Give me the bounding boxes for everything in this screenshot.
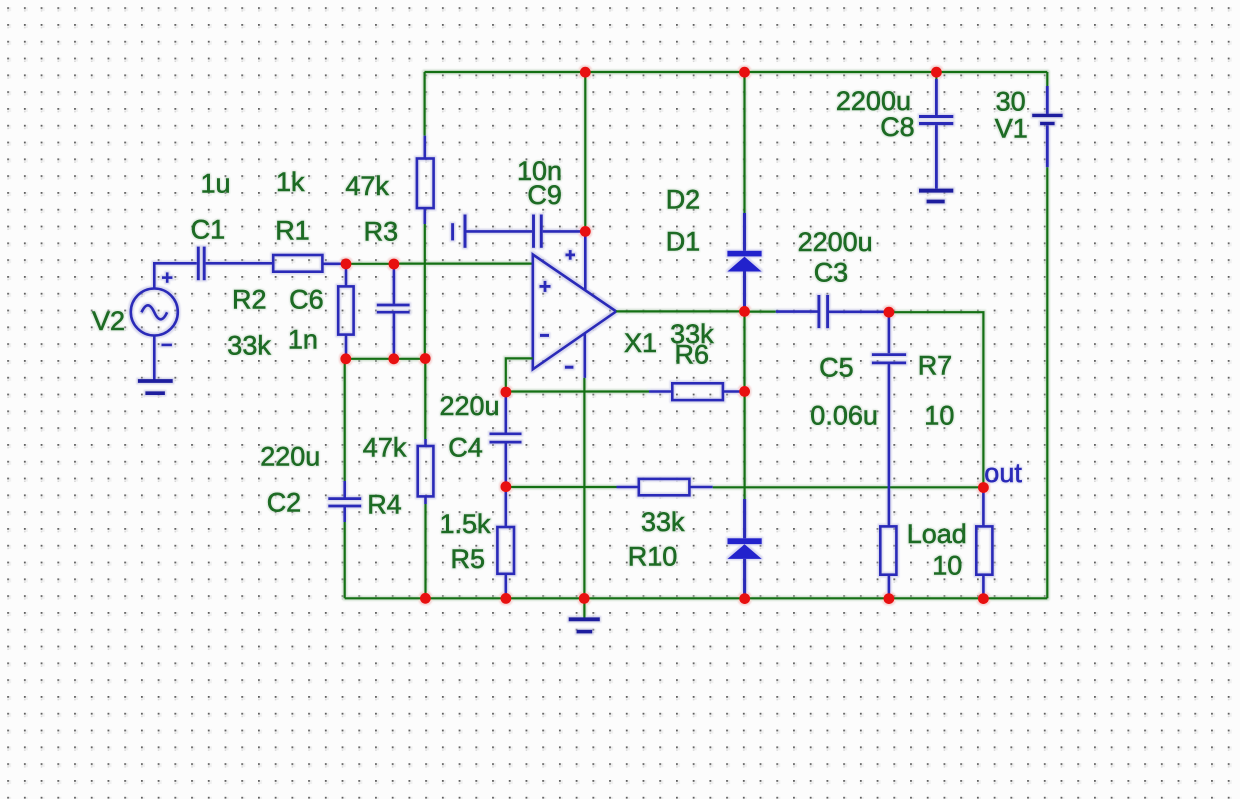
junction bias tap R3/R4 — [420, 353, 431, 364]
junction top rail D1 — [739, 67, 750, 78]
capacitor C8 plates — [919, 117, 953, 124]
svg-text:1.5k: 1.5k — [440, 509, 492, 539]
op-amp X1 triangle — [533, 255, 616, 370]
capacitor C4 plates — [490, 434, 522, 442]
svg-text:0.06u: 0.06u — [810, 401, 878, 431]
wire R3 to bias node — [424, 224, 426, 358]
wire node A to node B — [346, 263, 394, 265]
resistor R5 bottom lead — [504, 574, 507, 599]
svg-text:C5: C5 — [819, 353, 854, 383]
wire top rail to R3 — [424, 72, 426, 136]
resistor R4 bottom lead — [424, 496, 427, 504]
wire R10 to out node — [713, 486, 984, 488]
wire R4 to bottom rail — [424, 504, 426, 598]
svg-text:R5: R5 — [451, 544, 486, 574]
op-amp X1 V+ pin marker — [566, 250, 576, 260]
svg-text:R4: R4 — [367, 490, 402, 520]
svg-text:R10: R10 — [628, 542, 678, 572]
resistor R3 — [417, 159, 434, 209]
svg-text:V1: V1 — [995, 114, 1028, 144]
svg-text:R1: R1 — [275, 216, 310, 246]
svg-text:220u: 220u — [260, 442, 320, 472]
svg-text:1k: 1k — [276, 167, 305, 197]
svg-text:10: 10 — [932, 551, 962, 581]
resistor R4 wire from bias node — [424, 358, 426, 439]
capacitor C6 plates — [377, 305, 410, 312]
wire V1 down right side to bottom rail — [1046, 167, 1048, 598]
svg-text:D1: D1 — [666, 227, 701, 257]
svg-text:R3: R3 — [364, 217, 399, 247]
capacitor C3 plates — [819, 295, 828, 328]
diode D1 — [727, 213, 761, 311]
resistor R5 top lead — [504, 487, 507, 527]
svg-text:1n: 1n — [288, 325, 318, 355]
bottom rail ground wire — [345, 597, 1048, 599]
svg-text:C9: C9 — [527, 180, 562, 210]
svg-text:D2: D2 — [666, 185, 701, 215]
diode D2 — [728, 499, 762, 599]
wire V2 minus lead down — [153, 336, 156, 380]
resistor R4 — [418, 446, 434, 496]
wire C3 node to out corner — [889, 312, 984, 487]
wire output node to C3 — [745, 311, 776, 313]
wire lead R3 top — [423, 136, 426, 159]
wire op-amp output — [616, 310, 744, 312]
wire V+ node to op-amp power pin — [584, 231, 587, 290]
op-amp X1 inverting input marker — [540, 334, 549, 337]
wire C2 to bottom rail — [344, 522, 346, 598]
resistor R2 top lead — [345, 264, 348, 287]
op-amp X1 noninverting input marker — [540, 281, 551, 292]
capacitor C3 left lead — [776, 310, 818, 313]
capacitor C2 wire from bias node — [344, 359, 346, 481]
resistor Load — [976, 526, 992, 574]
svg-text:C4: C4 — [448, 433, 483, 463]
capacitor C2 plates — [328, 499, 361, 506]
svg-text:C8: C8 — [880, 112, 915, 142]
wire top rail corner to V1 — [1046, 72, 1048, 86]
capacitor C9 left plate bar — [464, 215, 467, 248]
wire R1 to node A — [322, 262, 346, 265]
capacitor C2 bottom lead — [343, 507, 346, 522]
junction bottom rail Load — [978, 593, 989, 604]
wire C9 right lead to V+ node — [543, 230, 586, 233]
junction C9 V+ node — [580, 226, 591, 237]
svg-text:47k: 47k — [345, 171, 389, 201]
wire R3 bottom lead — [423, 208, 426, 224]
svg-text:C1: C1 — [191, 215, 226, 245]
wire C1 to R1 — [206, 262, 274, 265]
resistor R4 top lead — [424, 439, 427, 446]
resistor R6 left lead — [649, 390, 672, 393]
capacitor C6 top lead — [393, 264, 396, 304]
wire op-amp V- power pin down — [583, 333, 586, 378]
junction R2 bottom — [340, 353, 351, 364]
junction bottom rail R5 — [501, 593, 512, 604]
battery V1 plates — [1032, 115, 1062, 123]
junction C4/R5/R10 node — [501, 481, 512, 492]
resistor R6 — [672, 383, 723, 400]
svg-text:C6: C6 — [289, 285, 324, 315]
bias node horizontal wire — [345, 358, 426, 360]
svg-text:C2: C2 — [267, 488, 302, 518]
wire op-amp inverting input — [506, 358, 533, 392]
resistor R5 — [497, 527, 514, 574]
top rail +V wire — [425, 71, 1048, 73]
wire feedback node to R10 — [506, 486, 617, 488]
voltage source V2 — [131, 272, 178, 345]
capacitor C1 plates — [198, 247, 204, 281]
resistor R7 bottom lead — [888, 575, 891, 599]
svg-text:R7: R7 — [918, 351, 953, 381]
svg-text:V2: V2 — [92, 306, 125, 336]
resistor R10 — [639, 479, 690, 495]
svg-text:Load: Load — [907, 519, 967, 549]
svg-text:33k: 33k — [641, 507, 685, 537]
junction inverting node — [501, 387, 512, 398]
junction R6/diode node — [739, 386, 750, 397]
capacitor C8 top lead — [935, 72, 937, 79]
battery V1 bottom lead — [1046, 125, 1049, 167]
ground symbol for C8 — [919, 191, 953, 202]
capacitor C2 top lead — [343, 481, 346, 498]
capacitor C8 bottom lead — [935, 125, 938, 188]
capacitor C5 plates — [872, 355, 906, 363]
ground symbol main — [569, 619, 600, 631]
capacitor C3 right lead — [829, 310, 889, 313]
capacitor C5 top lead — [888, 312, 891, 353]
svg-text:1u: 1u — [201, 169, 231, 199]
wire node B to op-amp noninverting input — [394, 263, 533, 265]
wire V+ branch from top rail — [584, 72, 586, 231]
wire output node down to R6 node — [743, 311, 745, 391]
svg-text:R2: R2 — [232, 285, 267, 315]
capacitor C6 bottom lead — [393, 313, 396, 359]
wire C5 to R7 — [888, 364, 891, 527]
resistor Load top lead — [982, 487, 985, 526]
capacitor C9 plates — [534, 215, 542, 248]
wire top rail to D1 — [743, 72, 745, 213]
junction output/D1 node — [739, 306, 750, 317]
junction out node — [978, 482, 989, 493]
op-amp X1 V- pin marker — [565, 366, 574, 369]
svg-text:2200u: 2200u — [798, 227, 873, 257]
resistor R10 left lead — [617, 486, 639, 489]
resistor Load bottom lead — [982, 575, 985, 599]
junction node A R1/R2 — [341, 259, 352, 270]
resistor R6 right lead — [723, 390, 745, 393]
svg-text:30: 30 — [996, 87, 1026, 117]
junction top rail C8 — [931, 67, 942, 78]
resistor R10 right lead — [689, 486, 712, 489]
svg-text:10: 10 — [924, 401, 954, 431]
svg-text:R6: R6 — [675, 340, 710, 370]
svg-text:47k: 47k — [363, 433, 407, 463]
wire V2 plus lead to C1 — [154, 263, 197, 288]
capacitor C9 left stub bar — [451, 223, 454, 240]
resistor R2 bottom lead — [345, 335, 348, 359]
wire inverting node to R6 — [506, 390, 649, 392]
junction top rail V+ branch — [580, 67, 591, 78]
wire bottom rail to ground symbol — [583, 598, 585, 617]
junction bottom rail ground — [579, 593, 590, 604]
wire V- pin to bottom rail — [583, 378, 585, 598]
junction C3/C5 node — [884, 307, 895, 318]
ground symbol for V2 — [138, 381, 173, 393]
junction node B C6 top — [389, 259, 400, 270]
wire R6 node down to D2 — [743, 391, 745, 499]
wire C9 left lead — [465, 230, 532, 233]
junction bottom rail R7 — [884, 593, 895, 604]
resistor R1 — [273, 255, 322, 272]
resistor R2 — [338, 286, 353, 334]
junction bottom rail R4 — [420, 593, 431, 604]
capacitor C4 top lead — [504, 392, 507, 433]
resistor R7 — [880, 526, 896, 574]
svg-text:C3: C3 — [814, 258, 849, 288]
battery V1 top lead — [1046, 86, 1049, 114]
junction C6 bottom — [388, 353, 399, 364]
capacitor C4 bottom lead — [504, 443, 507, 487]
svg-text:out: out — [984, 458, 1022, 488]
svg-text:220u: 220u — [440, 391, 500, 421]
junction bottom rail D2 — [739, 593, 750, 604]
svg-text:X1: X1 — [624, 328, 657, 358]
svg-text:33k: 33k — [227, 331, 271, 361]
